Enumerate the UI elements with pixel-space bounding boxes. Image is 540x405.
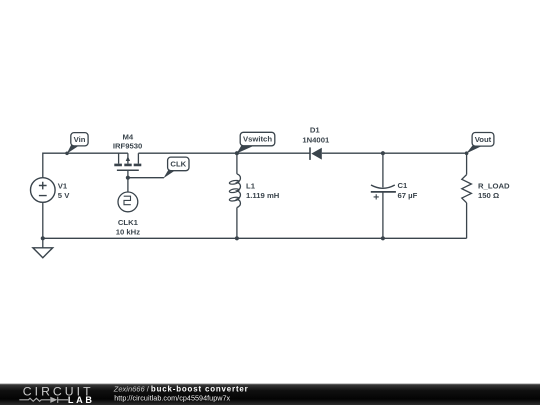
svg-text:http://circuitlab.com/cp45594f: http://circuitlab.com/cp45594fupw7x xyxy=(114,394,230,403)
net flag CLK xyxy=(163,157,189,178)
clock source CLK1 xyxy=(116,192,141,236)
wire gate node to CLK1 xyxy=(127,178,129,192)
wire R_LOAD top lead xyxy=(466,153,468,174)
wire C1 top lead xyxy=(382,153,384,187)
wire V1 bottom xyxy=(42,202,44,238)
voltage source V1 xyxy=(31,178,71,203)
wire top rail drain to Vswitch node xyxy=(138,152,237,154)
footer bar xyxy=(0,384,540,405)
wire L1 top xyxy=(236,153,238,174)
node gate xyxy=(126,176,130,180)
wire top rail left segment xyxy=(43,153,128,178)
svg-text:LAB: LAB xyxy=(68,395,95,405)
svg-text:V1: V1 xyxy=(58,181,68,190)
wire C1 bottom lead xyxy=(382,192,384,238)
node ground xyxy=(41,236,45,240)
svg-text:CLK: CLK xyxy=(170,160,186,169)
ground xyxy=(33,248,53,258)
node C1 bottom xyxy=(381,236,385,240)
wire ground stub xyxy=(42,238,44,248)
wire bottom rail xyxy=(43,237,467,239)
transistor M4 xyxy=(113,132,143,177)
svg-text:10 kHz: 10 kHz xyxy=(116,227,141,236)
svg-text:L1: L1 xyxy=(246,181,256,190)
wire R_LOAD bottom lead xyxy=(466,203,468,239)
svg-text:C1: C1 xyxy=(398,181,409,190)
wire Vswitch node to diode cathode xyxy=(237,152,310,154)
net flag Vin xyxy=(65,133,88,156)
net flag Vout xyxy=(465,133,494,156)
svg-text:1.119 mH: 1.119 mH xyxy=(246,191,280,200)
svg-text:Vswitch: Vswitch xyxy=(243,135,272,144)
wire diode anode to C1 top xyxy=(322,152,383,154)
svg-text:R_LOAD: R_LOAD xyxy=(478,181,510,190)
svg-text:67 µF: 67 µF xyxy=(398,191,418,200)
wire L1 bottom xyxy=(236,208,238,239)
svg-text:5 V: 5 V xyxy=(58,191,70,200)
inductor L1 xyxy=(229,174,280,208)
svg-text:Zexin666 / buck-boost converte: Zexin666 / buck-boost converter xyxy=(113,384,249,393)
svg-text:CLK1: CLK1 xyxy=(118,218,139,227)
wire C1 top to R_LOAD top xyxy=(383,152,467,154)
svg-text:M4: M4 xyxy=(122,132,133,141)
svg-text:IRF9530: IRF9530 xyxy=(113,142,143,151)
diode D1 xyxy=(302,126,330,160)
net flag Vswitch xyxy=(235,132,275,155)
resistor R_LOAD xyxy=(462,175,510,203)
capacitor C1 xyxy=(371,181,418,200)
node C1 top xyxy=(381,151,385,155)
wire gate node to CLK flag xyxy=(128,177,164,179)
svg-text:150 Ω: 150 Ω xyxy=(478,191,499,200)
node Vswitch bottom xyxy=(235,236,239,240)
svg-text:1N4001: 1N4001 xyxy=(302,135,330,144)
svg-text:D1: D1 xyxy=(310,126,321,135)
svg-text:Vin: Vin xyxy=(74,135,86,144)
svg-text:Vout: Vout xyxy=(475,135,492,144)
